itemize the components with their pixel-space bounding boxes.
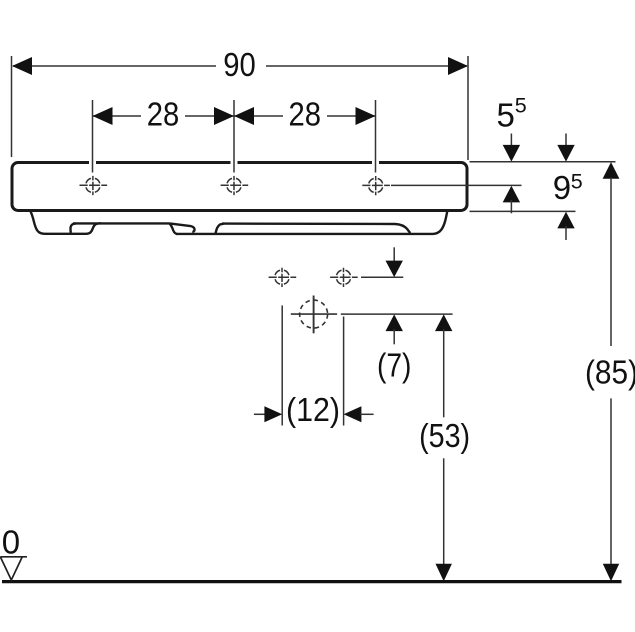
dim (12): right extension line: [343, 317, 345, 426]
floor baseline: [2, 580, 622, 583]
drain marker horizontal axis: [291, 313, 337, 315]
dim 9.5: upper arrow shaft: [565, 134, 567, 148]
dim 90: right extension line: [467, 56, 469, 160]
faucet hole marker 2: [221, 176, 249, 195]
dim (53): lower shaft: [443, 458, 445, 565]
extension tails through slab edge: [93, 160, 376, 173]
dim 5.5: down arrow at top line: [503, 145, 520, 162]
dim 28 left: dimension line: [93, 115, 235, 117]
basin underside outline: [31, 212, 448, 234]
dim 28 (left): extension line x=92.5: [92, 100, 94, 173]
dim 5.5: lower arrow shaft: [510, 200, 512, 213]
dim (7): upper arrow shaft: [393, 247, 395, 263]
dim 28: middle extension line x=234: [233, 100, 235, 173]
right shelf line and its down-curve: [222, 224, 410, 233]
dim 9.5: lower arrow shaft: [565, 226, 567, 240]
right outer up-curve to slab: [433, 212, 447, 234]
dim 28: right extension line x=375.5: [375, 100, 377, 173]
dim (12): left shaft: [254, 413, 266, 415]
datum triangle: [0, 557, 27, 580]
slab bottom level line (right side): [470, 210, 576, 212]
dim (12): right shaft: [360, 413, 374, 415]
dim (53): up arrow at drain line: [435, 314, 452, 331]
dim 28 left: right arrow: [214, 107, 234, 125]
svg-text:(85): (85): [585, 354, 635, 391]
dim (53): down arrow at baseline: [436, 564, 452, 582]
faucet hole marker 1: [80, 176, 108, 195]
scoop top edge: [170, 223, 195, 231]
dim 90: left arrow: [12, 57, 32, 75]
svg-text:(12): (12): [286, 391, 340, 428]
dim (85): down arrow at baseline: [603, 564, 619, 582]
hole axis line extending right: [391, 184, 522, 186]
dim (85): upper shaft: [610, 178, 612, 347]
underside left slant and foot bottom: [31, 212, 101, 234]
svg-text:5: 5: [571, 169, 583, 193]
left shelf line: [73, 222, 170, 224]
dim 28 right: left arrow: [234, 107, 254, 125]
dim 90: right arrow: [448, 57, 468, 75]
svg-text:9: 9: [553, 169, 571, 206]
washbasin slab outline (front view): [12, 163, 467, 211]
svg-text:(53): (53): [419, 417, 470, 454]
dim 28 right: dimension line: [234, 115, 376, 117]
anchor hole marker 1: [269, 268, 297, 287]
dim (7): lower arrow shaft: [393, 329, 395, 344]
foot divider: [70, 223, 76, 232]
top reference line (basin top level, right side): [470, 161, 616, 163]
dim (12): left extension line: [281, 305, 283, 425]
svg-text:28: 28: [147, 96, 180, 133]
dim 9.5: up arrow at slab bottom line: [557, 212, 574, 229]
dim (12): left arrow pointing right: [264, 406, 282, 422]
svg-text:0: 0: [2, 523, 20, 560]
faucet hole marker 3: [362, 176, 390, 195]
drain marker dashed circle: [300, 300, 328, 328]
svg-text:28: 28: [289, 96, 322, 133]
dim (7): up arrow at drain line: [386, 314, 403, 331]
dim 5.5: up arrow at hole line: [503, 186, 520, 203]
dim 90: left extension line: [11, 56, 13, 157]
gaps in slab top edge at extension crossings: [89, 160, 379, 165]
dim 28 left: left arrow: [93, 107, 113, 125]
svg-text:90: 90: [223, 46, 256, 83]
dim 9.5: down arrow at top line: [557, 145, 574, 162]
svg-text:(7): (7): [377, 346, 412, 383]
scoop left-bottom curve joining bottom line: [170, 224, 178, 234]
anchor hole marker 2: [330, 268, 358, 287]
dim (7): down arrow at anchor line: [386, 261, 403, 278]
dim (12): right arrow pointing left: [344, 406, 362, 422]
svg-text:5: 5: [497, 96, 515, 133]
dim 5.5: upper arrow shaft: [510, 134, 512, 148]
drain axis line extending right: [341, 313, 453, 315]
dim (85): lower shaft: [610, 398, 612, 565]
dim (85): up arrow at top reference line: [603, 162, 620, 179]
right shelf rise from bottom: [216, 224, 225, 234]
dim (53): upper shaft: [443, 329, 445, 417]
drain marker vertical axis: [313, 296, 315, 334]
bottom line of underside: [176, 233, 433, 235]
svg-text:5: 5: [515, 94, 527, 118]
dim 28 right: right arrow: [356, 107, 376, 125]
dim 90: dimension line: [13, 65, 467, 67]
anchor hole axis line: [361, 276, 403, 278]
